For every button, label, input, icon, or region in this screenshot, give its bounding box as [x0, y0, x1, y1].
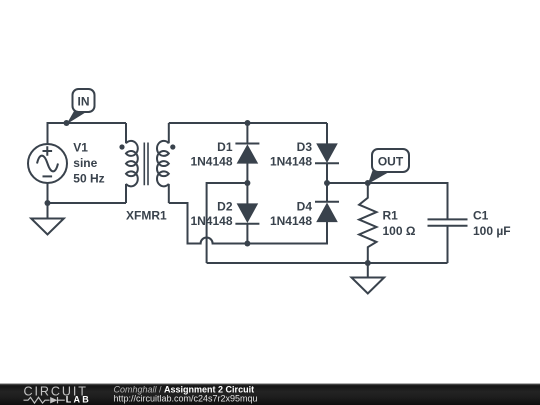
- svg-text:1N4148: 1N4148: [190, 214, 232, 228]
- svg-text:http://circuitlab.com/c24s7r2x: http://circuitlab.com/c24s7r2x95mqu: [114, 394, 258, 404]
- svg-text:V1: V1: [73, 141, 88, 155]
- svg-text:D1: D1: [217, 140, 233, 154]
- svg-text:XFMR1: XFMR1: [126, 209, 167, 223]
- svg-text:D4: D4: [297, 200, 313, 214]
- svg-text:D3: D3: [297, 140, 313, 154]
- svg-text:1N4148: 1N4148: [270, 155, 312, 169]
- svg-text:D2: D2: [217, 200, 233, 214]
- svg-text:C1: C1: [473, 209, 489, 223]
- svg-text:100 µF: 100 µF: [473, 224, 511, 238]
- svg-text:R1: R1: [383, 209, 399, 223]
- svg-text:1N4148: 1N4148: [190, 155, 232, 169]
- svg-text:1N4148: 1N4148: [270, 214, 312, 228]
- svg-text:IN: IN: [78, 95, 90, 109]
- svg-text:50 Hz: 50 Hz: [73, 172, 104, 186]
- svg-text:OUT: OUT: [378, 154, 404, 168]
- svg-text:sine: sine: [73, 156, 97, 170]
- svg-text:LAB: LAB: [66, 395, 91, 405]
- svg-text:100 Ω: 100 Ω: [383, 224, 416, 238]
